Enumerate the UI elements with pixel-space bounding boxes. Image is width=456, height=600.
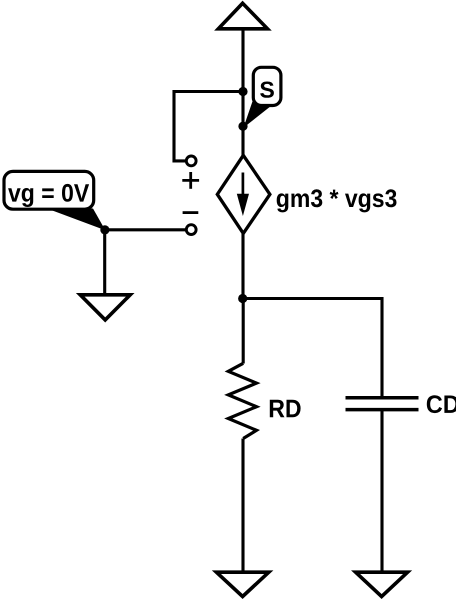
node S upper dot — [238, 87, 247, 96]
callout box S — [253, 67, 281, 105]
node S lower dot — [238, 122, 247, 131]
callout tail vg — [47, 209, 105, 231]
label CD — [427, 395, 456, 413]
minus sign — [183, 211, 199, 214]
current arrow head — [237, 194, 249, 216]
ground (left) — [80, 295, 130, 320]
wire resistor to ground — [241, 439, 244, 573]
label RD — [270, 400, 301, 417]
wire supply to diamond top — [241, 29, 244, 156]
power supply VDD symbol — [218, 3, 267, 29]
ground (bottom right) — [356, 572, 408, 596]
wire diamond bottom to node D — [241, 233, 244, 298]
wire node D to resistor — [242, 299, 245, 364]
wire node D to capacitor branch — [243, 299, 382, 397]
wire capacitor to ground — [380, 411, 383, 572]
ground (bottom left) — [216, 572, 268, 596]
value label gm3 * vgs3 — [277, 189, 397, 212]
node vg junction dot — [100, 225, 109, 234]
terminal circle + — [186, 156, 196, 166]
dependent current source G1 diamond — [217, 155, 270, 233]
capacitor CD bottom plate — [346, 408, 419, 412]
current arrow shaft — [242, 173, 245, 199]
callout tail S — [243, 101, 270, 128]
wire vg node to - terminal — [105, 228, 186, 231]
callout box vg = 0V — [4, 171, 94, 209]
label vg = 0V — [8, 184, 89, 207]
wire vg node to ground — [103, 230, 106, 295]
label S — [260, 82, 274, 98]
node D junction dot — [238, 294, 247, 303]
wire node S to + terminal — [174, 92, 243, 161]
plus sign — [182, 172, 199, 189]
resistor RD — [228, 363, 256, 438]
terminal circle - — [186, 225, 196, 235]
capacitor CD top plate — [346, 396, 419, 400]
